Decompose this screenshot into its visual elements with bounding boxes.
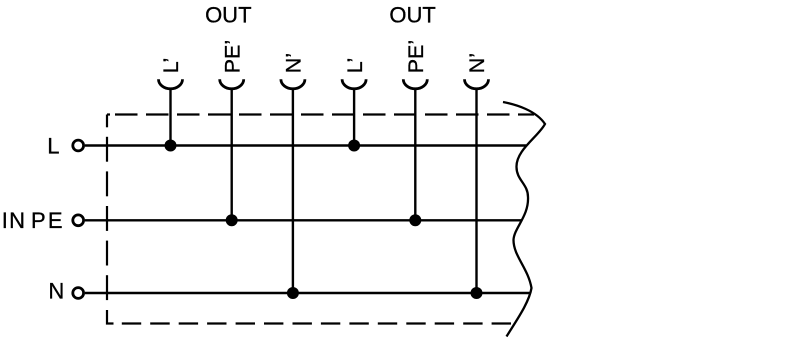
- svg-text:N’: N’: [465, 53, 489, 73]
- svg-text:OUT: OUT: [389, 3, 435, 28]
- svg-text:PE’: PE’: [404, 40, 428, 73]
- svg-text:L: L: [47, 133, 59, 158]
- svg-text:OUT: OUT: [205, 3, 251, 28]
- svg-text:IN: IN: [2, 208, 26, 233]
- svg-text:N: N: [48, 278, 64, 303]
- svg-text:L’: L’: [159, 58, 183, 74]
- svg-text:PE: PE: [31, 208, 65, 233]
- svg-text:N’: N’: [282, 53, 306, 73]
- svg-text:PE’: PE’: [220, 40, 244, 73]
- svg-text:L’: L’: [343, 58, 367, 74]
